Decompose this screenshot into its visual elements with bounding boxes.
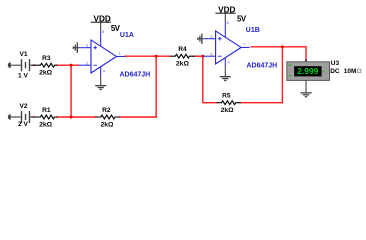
- wire: U1A output to R4: [124, 55, 171, 57]
- multimeter U3 body: [287, 62, 330, 81]
- junction: U1B output / feedback R5: [281, 45, 284, 48]
- svg-text:5V: 5V: [237, 14, 247, 23]
- wire: R1 to node A to R2: [56, 116, 97, 118]
- svg-text:U1B: U1B: [246, 27, 260, 34]
- svg-text:AD647JH: AD647JH: [247, 62, 278, 69]
- svg-text:U3: U3: [331, 60, 340, 67]
- resistor R5 2k&#937; (U1B feedback): [217, 101, 241, 105]
- resistor R4 2k&#937;: [170, 54, 194, 58]
- svg-text:2kΩ: 2kΩ: [176, 61, 190, 68]
- svg-text:R1: R1: [42, 107, 51, 114]
- junction: node A at R3 / U1A input: [70, 64, 73, 67]
- wire: R5 to feedback corner: [241, 102, 283, 104]
- svg-text:2.999: 2.999: [297, 67, 319, 76]
- wire: drop into multimeter U3: [305, 46, 307, 60]
- svg-text:V2: V2: [20, 103, 28, 110]
- wire: U1A feedback vertical: [155, 56, 157, 117]
- multimeter U3 terminal marks: [289, 64, 324, 76]
- wire: U1B summing node vertical: [202, 56, 204, 102]
- junction: node A at R1 / R2: [70, 116, 73, 119]
- svg-text:2kΩ: 2kΩ: [100, 121, 114, 128]
- svg-text:2 V: 2 V: [18, 121, 28, 128]
- resistor R1 2k&#937;: [33, 115, 57, 119]
- svg-text:1 V: 1 V: [18, 73, 28, 80]
- ground lead at + input of U1B: [198, 38, 203, 40]
- svg-text:2kΩ: 2kΩ: [221, 107, 235, 114]
- op-amp U1B (AD647JH): [203, 23, 250, 67]
- ground below multimeter U3: [301, 93, 312, 97]
- VDD power symbol at U1A: [100, 22, 102, 32]
- multimeter U3 bottom pin: [305, 80, 307, 93]
- svg-text:R3: R3: [42, 55, 51, 62]
- svg-text:2kΩ: 2kΩ: [39, 70, 53, 77]
- op-amp U1A (AD647JH): [79, 32, 126, 76]
- svg-text:R5: R5: [222, 93, 231, 100]
- battery V1 (1 V): [8, 59, 34, 71]
- VDD power symbol at U1B: [224, 13, 226, 23]
- wire: R3 to U1A inverting input: [56, 64, 79, 66]
- resistor R2 2k&#937; (U1A feedback): [95, 115, 119, 119]
- svg-text:R4: R4: [178, 46, 187, 53]
- wire: V2 to R1 stub: [32, 116, 36, 118]
- ground lead at + input of U1A: [74, 47, 79, 49]
- wire: V1 to R3 stub: [32, 64, 36, 66]
- wire: R2 to feedback corner: [119, 116, 157, 118]
- junction: U1B inverting input / R5: [201, 55, 204, 58]
- svg-text:VDD: VDD: [218, 5, 235, 14]
- svg-text:AD647JH: AD647JH: [120, 72, 151, 79]
- VSS ground stem at U1A: [100, 76, 102, 86]
- wire: U1B feedback vertical: [281, 47, 283, 104]
- resistor R3 2k&#937;: [33, 63, 57, 67]
- svg-text:R2: R2: [102, 107, 111, 114]
- multimeter U3 display: [294, 66, 321, 76]
- svg-text:U1A: U1A: [120, 32, 134, 39]
- VSS ground stem at U1B: [224, 67, 226, 77]
- ground below U1A: [95, 86, 106, 90]
- wire: R4 to U1B inverting input: [193, 55, 204, 57]
- svg-text:VDD: VDD: [94, 14, 111, 23]
- wire: node A vertical (summing node): [70, 65, 72, 117]
- junction: U1A output / feedback R2: [155, 55, 158, 58]
- wire: node to R5: [203, 102, 218, 104]
- svg-text:V1: V1: [20, 51, 28, 58]
- ground below U1B: [220, 77, 231, 81]
- svg-text:10MΩ: 10MΩ: [344, 68, 362, 75]
- battery V2 (2 V): [8, 111, 34, 123]
- multimeter U3 top pin: [305, 60, 307, 63]
- svg-text:DC: DC: [330, 68, 340, 75]
- wire: U1B output to multimeter: [251, 46, 307, 48]
- ground at + input of U1A: [73, 43, 77, 53]
- ground at + input of U1B: [198, 34, 202, 44]
- svg-text:2kΩ: 2kΩ: [39, 121, 53, 128]
